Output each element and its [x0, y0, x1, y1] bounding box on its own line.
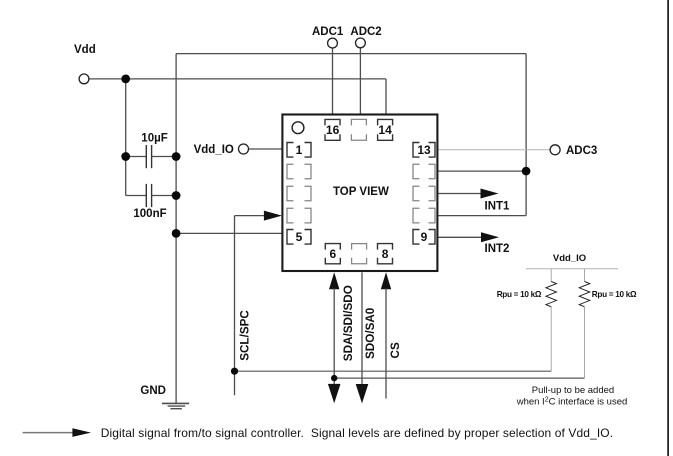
svg-text:1: 1: [296, 143, 303, 157]
svg-text:9: 9: [421, 230, 428, 244]
svg-text:8: 8: [382, 247, 389, 261]
svg-text:Rpu = 10 kΩ: Rpu = 10 kΩ: [497, 290, 542, 299]
svg-text:INT2: INT2: [485, 243, 510, 255]
svg-text:GND: GND: [140, 385, 166, 397]
svg-text:5: 5: [296, 230, 303, 244]
svg-text:CS: CS: [389, 342, 402, 358]
svg-text:ADC2: ADC2: [350, 26, 381, 38]
svg-text:Vdd_IO: Vdd_IO: [553, 253, 586, 264]
svg-text:16: 16: [326, 123, 340, 137]
svg-text:Vdd_IO: Vdd_IO: [194, 144, 234, 156]
svg-text:6: 6: [330, 247, 337, 261]
svg-text:Pull-up to be added: Pull-up to be added: [532, 385, 614, 396]
svg-text:13: 13: [417, 143, 431, 157]
svg-text:10µF: 10µF: [141, 132, 167, 144]
svg-text:100nF: 100nF: [133, 208, 166, 220]
svg-text:SDO/SA0: SDO/SA0: [364, 307, 377, 359]
svg-text:when I2C interface is used: when I2C interface is used: [516, 396, 628, 407]
svg-text:TOP VIEW: TOP VIEW: [333, 186, 389, 198]
svg-text:ADC1: ADC1: [312, 26, 344, 38]
svg-text:SCL/SPC: SCL/SPC: [238, 310, 251, 361]
svg-text:Rpu = 10 kΩ: Rpu = 10 kΩ: [592, 290, 637, 299]
svg-text:Digital signal from/to signal: Digital signal from/to signal controller…: [101, 426, 614, 440]
svg-text:14: 14: [378, 123, 392, 137]
svg-text:ADC3: ADC3: [566, 145, 597, 157]
svg-text:INT1: INT1: [485, 200, 511, 212]
svg-text:Vdd: Vdd: [74, 44, 96, 56]
svg-text:SDA/SDI/SDO: SDA/SDI/SDO: [342, 285, 355, 361]
